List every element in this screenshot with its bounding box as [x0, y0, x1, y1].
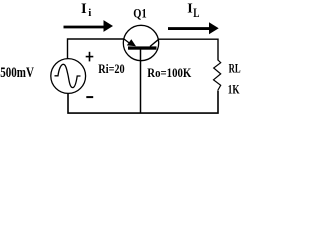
- svg-text:Ro=100K: Ro=100K: [147, 66, 191, 80]
- current arrow IL: [168, 22, 219, 34]
- wire top right: [158, 39, 218, 60]
- resistor RL: [214, 60, 221, 91]
- current arrow Ii: [64, 20, 114, 32]
- label Ii: [81, 1, 91, 19]
- wire bottom: [68, 91, 218, 113]
- svg-text:Q1: Q1: [133, 6, 146, 20]
- transistor Q1: [123, 25, 159, 60]
- svg-text:1K: 1K: [228, 82, 240, 97]
- svg-text:i: i: [88, 7, 91, 19]
- wire top left: [68, 39, 125, 59]
- wire transistor base: [140, 50, 142, 114]
- minus polarity mark: [86, 96, 93, 98]
- svg-text:L: L: [193, 5, 199, 20]
- label IL: [187, 2, 199, 21]
- svg-text:I: I: [187, 2, 192, 17]
- svg-text:I: I: [81, 1, 87, 17]
- svg-text:RL: RL: [229, 61, 241, 76]
- svg-text:Ri=20: Ri=20: [98, 62, 124, 76]
- voltage source V1: [51, 59, 86, 94]
- svg-text:500mV: 500mV: [0, 65, 34, 81]
- plus polarity mark: [86, 52, 94, 62]
